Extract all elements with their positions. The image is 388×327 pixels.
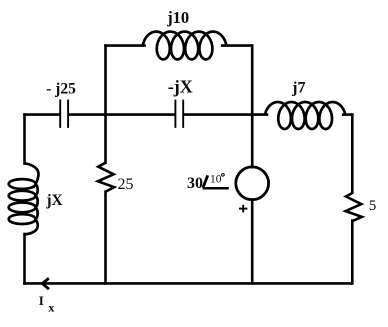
inductor j7 coil (265, 102, 346, 129)
plus sign of source polarity: vertical stroke (242, 205, 244, 213)
capacitor -j25 right plate (67, 100, 69, 128)
svg-text:10: 10 (210, 174, 222, 186)
wire middle rail: j7 exit to right rail corner (343, 113, 352, 116)
wire top rail left segment (106, 44, 145, 47)
wire branch2 vertical lower (resistor 25 to bottom rail) (104, 192, 107, 284)
svg-text:-jX: -jX (168, 77, 193, 97)
wire left rail upper (middle rail corner to inductor jX) (23, 115, 26, 164)
svg-text:30: 30 (187, 175, 203, 192)
svg-text:x: x (48, 301, 54, 315)
svg-text:- j25: - j25 (46, 80, 76, 97)
current arrow head Ix (points left) (42, 278, 49, 289)
capacitor -j25 left plate (59, 100, 61, 128)
wire middle rail: -j25 to -jX (through node at branch2) (69, 113, 175, 116)
svg-text:jX: jX (45, 192, 63, 209)
capacitor -jX left plate (174, 100, 176, 128)
resistor 5 zigzag (346, 193, 362, 221)
inductor jX coil (9, 163, 39, 234)
svg-text:I: I (39, 293, 44, 308)
wire branch3 vertical lower (source bottom to bottom rail) (251, 200, 254, 284)
svg-text:j10: j10 (166, 8, 189, 27)
capacitor -jX right plate (182, 100, 184, 128)
wire right rail lower (resistor 5 to bottom rail) (351, 221, 354, 284)
voltage source V1 circle (236, 167, 269, 200)
angle symbol diagonal stroke of 30&#8736;10&#176; (203, 175, 208, 187)
angle symbol horizontal stroke of 30&#8736;10&#176; (203, 187, 229, 190)
svg-text:25: 25 (118, 176, 134, 193)
wire right rail upper (middle rail corner to resistor 5) (351, 115, 354, 193)
wire branch2 vertical upper (top rail to resistor 25) (104, 46, 107, 163)
degree symbol of source angle (222, 173, 225, 176)
plus sign of source polarity: horizontal stroke (239, 208, 247, 210)
wire middle rail: left end to capacitor -j25 (25, 113, 60, 116)
wire branch3 vertical upper (top rail to source top) (251, 46, 254, 168)
resistor 25 zigzag (98, 163, 114, 192)
wire middle rail: -jX to inductor j7 (through node at branch3) (184, 113, 267, 116)
wire left rail lower (inductor jX to bottom rail) (23, 234, 26, 283)
wire bottom rail (25, 282, 353, 285)
wire top rail right segment (222, 44, 252, 47)
inductor j10 coil (143, 32, 227, 60)
svg-text:5: 5 (369, 198, 377, 214)
svg-text:j7: j7 (291, 79, 305, 96)
